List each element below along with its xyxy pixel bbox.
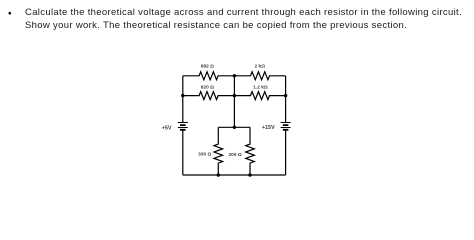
svg-text:+5V: +5V xyxy=(162,126,172,132)
svg-text:820 Ω: 820 Ω xyxy=(201,85,214,91)
svg-text:+15V: +15V xyxy=(262,125,275,131)
svg-text:2 kΩ: 2 kΩ xyxy=(255,64,266,70)
svg-text:682 Ω: 682 Ω xyxy=(201,64,214,70)
svg-text:330 Ω: 330 Ω xyxy=(198,151,211,157)
svg-text:200 Ω: 200 Ω xyxy=(229,152,242,158)
svg-text:1.2 kΩ: 1.2 kΩ xyxy=(253,85,268,91)
